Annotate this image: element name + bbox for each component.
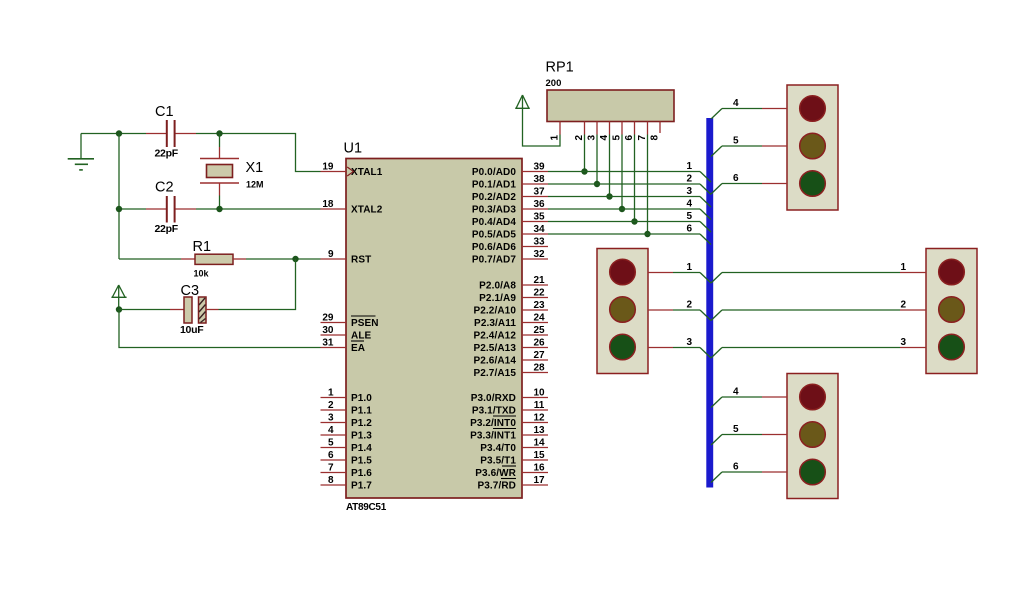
svg-text:21: 21: [533, 275, 545, 286]
svg-text:P3.3/INT1: P3.3/INT1: [470, 431, 516, 442]
svg-text:6: 6: [624, 135, 635, 141]
svg-text:P1.2: P1.2: [351, 418, 372, 429]
svg-text:32: 32: [533, 249, 545, 260]
svg-text:P2.2/A10: P2.2/A10: [474, 306, 517, 317]
svg-text:24: 24: [533, 313, 545, 324]
svg-text:1: 1: [550, 135, 561, 141]
svg-text:P3.4/T0: P3.4/T0: [480, 443, 516, 454]
svg-text:4: 4: [328, 425, 334, 436]
svg-text:P1.7: P1.7: [351, 481, 372, 492]
svg-text:6: 6: [686, 224, 692, 235]
svg-text:P1.4: P1.4: [351, 443, 372, 454]
svg-text:2: 2: [574, 135, 585, 141]
svg-text:29: 29: [322, 313, 334, 324]
svg-text:8: 8: [328, 475, 334, 486]
svg-text:33: 33: [533, 237, 545, 248]
svg-text:XTAL2: XTAL2: [351, 205, 383, 216]
svg-text:P1.6: P1.6: [351, 468, 372, 479]
svg-text:P0.2/AD2: P0.2/AD2: [472, 192, 516, 203]
svg-text:P1.3: P1.3: [351, 431, 372, 442]
svg-text:RST: RST: [351, 255, 371, 266]
svg-text:U1: U1: [344, 141, 363, 157]
svg-text:13: 13: [533, 425, 545, 436]
svg-text:3: 3: [587, 135, 598, 141]
svg-text:7: 7: [637, 135, 648, 141]
svg-text:15: 15: [533, 450, 545, 461]
svg-text:22pF: 22pF: [155, 148, 179, 160]
svg-text:7: 7: [328, 463, 334, 474]
svg-text:P2.7/A15: P2.7/A15: [474, 368, 517, 379]
svg-text:PSEN: PSEN: [351, 318, 379, 329]
svg-text:1: 1: [900, 262, 906, 273]
svg-text:18: 18: [322, 199, 334, 210]
svg-text:P3.7/RD: P3.7/RD: [478, 481, 517, 492]
svg-text:5: 5: [612, 135, 623, 141]
svg-text:P2.3/A11: P2.3/A11: [474, 318, 516, 329]
svg-text:8: 8: [650, 135, 661, 141]
svg-text:6: 6: [733, 173, 739, 184]
svg-text:10k: 10k: [194, 269, 210, 279]
svg-text:22pF: 22pF: [155, 223, 179, 235]
svg-text:3: 3: [686, 337, 692, 348]
svg-text:XTAL1: XTAL1: [351, 167, 383, 178]
svg-text:10uF: 10uF: [180, 324, 204, 336]
svg-text:P1.5: P1.5: [351, 456, 372, 467]
svg-text:1: 1: [686, 262, 692, 273]
svg-text:P0.3/AD3: P0.3/AD3: [472, 205, 516, 216]
svg-text:2: 2: [686, 300, 692, 311]
svg-text:C2: C2: [155, 180, 174, 196]
svg-text:35: 35: [533, 212, 545, 223]
svg-text:38: 38: [533, 174, 545, 185]
svg-text:EA: EA: [351, 343, 365, 354]
svg-text:9: 9: [328, 249, 334, 260]
svg-text:27: 27: [533, 350, 545, 361]
svg-text:2: 2: [328, 400, 334, 411]
svg-text:3: 3: [328, 413, 334, 424]
svg-text:P3.1/TXD: P3.1/TXD: [472, 406, 516, 417]
svg-text:2: 2: [900, 300, 906, 311]
svg-text:5: 5: [733, 136, 739, 147]
svg-text:P3.0/RXD: P3.0/RXD: [471, 393, 516, 404]
svg-text:12M: 12M: [246, 180, 264, 190]
svg-text:26: 26: [533, 338, 545, 349]
svg-text:34: 34: [533, 224, 545, 235]
svg-text:P2.0/A8: P2.0/A8: [479, 281, 516, 292]
svg-text:P0.1/AD1: P0.1/AD1: [472, 180, 516, 191]
svg-text:4: 4: [733, 387, 739, 398]
svg-text:4: 4: [599, 135, 610, 141]
svg-text:3: 3: [900, 337, 906, 348]
svg-text:6: 6: [733, 462, 739, 473]
svg-text:P0.0/AD0: P0.0/AD0: [472, 167, 516, 178]
svg-text:12: 12: [533, 413, 545, 424]
svg-text:36: 36: [533, 199, 545, 210]
svg-text:5: 5: [733, 424, 739, 435]
svg-text:5: 5: [328, 438, 334, 449]
svg-text:R1: R1: [193, 239, 212, 255]
svg-text:30: 30: [322, 325, 334, 336]
svg-text:10: 10: [533, 388, 545, 399]
svg-text:P2.1/A9: P2.1/A9: [479, 293, 516, 304]
svg-text:C3: C3: [181, 283, 200, 299]
svg-text:P1.1: P1.1: [351, 406, 372, 417]
svg-text:4: 4: [686, 199, 692, 210]
svg-text:28: 28: [533, 363, 545, 374]
svg-text:39: 39: [533, 162, 545, 173]
svg-text:ALE: ALE: [351, 331, 372, 342]
svg-text:P2.6/A14: P2.6/A14: [474, 356, 517, 367]
svg-text:22: 22: [533, 288, 545, 299]
svg-text:P0.5/AD5: P0.5/AD5: [472, 230, 516, 241]
svg-text:P3.6/WR: P3.6/WR: [475, 468, 516, 479]
svg-text:19: 19: [322, 162, 334, 173]
svg-text:3: 3: [686, 186, 692, 197]
svg-text:P0.4/AD4: P0.4/AD4: [472, 217, 516, 228]
svg-text:P3.5/T1: P3.5/T1: [480, 456, 516, 467]
svg-text:X1: X1: [246, 160, 264, 176]
svg-text:31: 31: [322, 338, 334, 349]
svg-text:5: 5: [686, 211, 692, 222]
svg-text:16: 16: [533, 463, 545, 474]
svg-text:17: 17: [533, 475, 545, 486]
svg-text:25: 25: [533, 325, 545, 336]
svg-text:2: 2: [686, 174, 692, 185]
svg-text:P3.2/INT0: P3.2/INT0: [470, 418, 516, 429]
svg-text:P0.7/AD7: P0.7/AD7: [472, 255, 516, 266]
svg-text:14: 14: [533, 438, 545, 449]
svg-text:200: 200: [546, 78, 562, 89]
svg-text:P2.4/A12: P2.4/A12: [474, 331, 517, 342]
svg-text:37: 37: [533, 187, 545, 198]
svg-text:4: 4: [733, 98, 739, 109]
svg-text:RP1: RP1: [546, 60, 574, 76]
svg-text:1: 1: [328, 388, 334, 399]
svg-text:P2.5/A13: P2.5/A13: [474, 343, 517, 354]
svg-text:C1: C1: [155, 104, 174, 120]
svg-text:P0.6/AD6: P0.6/AD6: [472, 242, 516, 253]
svg-text:1: 1: [686, 161, 692, 172]
svg-text:AT89C51: AT89C51: [346, 502, 387, 513]
svg-text:11: 11: [534, 400, 545, 411]
svg-text:P1.0: P1.0: [351, 393, 372, 404]
svg-text:23: 23: [533, 300, 545, 311]
svg-text:6: 6: [328, 450, 334, 461]
